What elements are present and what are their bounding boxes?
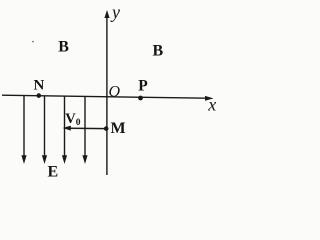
svg-text:y: y	[110, 2, 120, 22]
velocity arrow v0	[63, 126, 106, 131]
speck artifact	[32, 41, 34, 43]
E field line 4	[82, 96, 87, 164]
svg-text:B: B	[58, 38, 69, 55]
svg-text:O: O	[109, 84, 121, 101]
E field line 3	[62, 96, 67, 164]
svg-text:0: 0	[76, 118, 81, 128]
svg-text:V: V	[65, 111, 76, 127]
svg-text:E: E	[48, 164, 59, 179]
node M	[104, 126, 109, 131]
x-axis	[2, 95, 214, 101]
E field line 2	[42, 96, 47, 164]
svg-text:M: M	[111, 120, 126, 137]
E field line 1	[21, 96, 26, 164]
svg-text:N: N	[34, 77, 45, 93]
svg-text:P: P	[138, 78, 148, 95]
svg-text:x: x	[207, 95, 216, 115]
svg-text:B: B	[153, 43, 164, 60]
y-axis	[104, 10, 109, 175]
